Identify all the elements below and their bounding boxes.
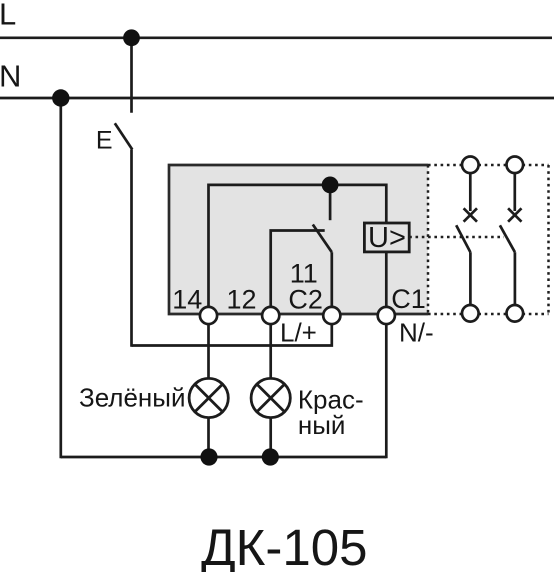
external contact terminals top xyxy=(462,157,479,174)
svg-text:12: 12 xyxy=(227,285,257,315)
lamp HL2 red xyxy=(251,378,290,417)
wire from switch E down xyxy=(130,150,133,347)
wire internal: blade to terminal C2 xyxy=(330,252,333,315)
svg-text:N/-: N/- xyxy=(399,318,434,348)
switch E blade xyxy=(115,123,133,149)
dashed control link from U> xyxy=(409,236,504,239)
terminal 11/C2 xyxy=(323,307,340,324)
svg-text:C1: C1 xyxy=(391,284,426,314)
wire internal: U> box to terminal C1 xyxy=(385,252,388,316)
node junction internal xyxy=(322,177,339,194)
svg-text:ный: ный xyxy=(298,410,346,440)
svg-text:U>: U> xyxy=(368,222,406,254)
svg-text:N: N xyxy=(0,58,21,93)
node junction green lamp bottom xyxy=(200,448,217,465)
wire N bus xyxy=(0,97,554,100)
wire horizontal to L/+ terminal C2 xyxy=(132,316,332,346)
wire terminal 12 to red lamp xyxy=(269,316,272,381)
external contact K1 xyxy=(456,173,477,304)
wire red lamp to bottom bus xyxy=(269,416,272,457)
node junction on N bus xyxy=(52,89,69,106)
relay contact blade xyxy=(313,225,332,253)
svg-text:ДК-105: ДК-105 xyxy=(201,519,367,572)
svg-text:C2: C2 xyxy=(288,285,323,315)
svg-text:L/+: L/+ xyxy=(280,318,317,348)
wire internal: terminal 14 up and across to U> xyxy=(209,185,387,316)
lamp HL1 green xyxy=(189,378,228,417)
external contact terminals bottom xyxy=(462,305,479,322)
terminal 14 xyxy=(200,307,217,324)
wire bottom bus xyxy=(61,456,387,459)
dashed external contact enclosure xyxy=(409,165,548,314)
node junction on L bus xyxy=(123,29,140,46)
external contact K2 xyxy=(500,173,522,304)
terminal C1 xyxy=(378,307,395,324)
wire terminal C1 down to bottom bus xyxy=(385,316,388,459)
svg-text:14: 14 xyxy=(172,285,202,315)
wire green lamp to bottom bus xyxy=(207,416,210,457)
svg-text:E: E xyxy=(96,127,113,155)
svg-text:L: L xyxy=(0,0,16,32)
device box DK-105 body xyxy=(169,165,428,314)
wire from L junction down to switch E xyxy=(130,38,133,113)
node junction red lamp bottom xyxy=(262,448,279,465)
wire L bus xyxy=(0,36,552,39)
wire from N junction down left side xyxy=(59,98,62,458)
wire internal: stub from node down to relay contact xyxy=(329,185,332,220)
relay U1 box U> xyxy=(364,222,409,254)
wire internal: NC contact line from terminal 12 xyxy=(271,231,325,316)
wire terminal 14 to green lamp xyxy=(207,316,210,381)
terminal 12 xyxy=(262,307,279,324)
svg-text:Зелёный: Зелёный xyxy=(79,383,186,413)
